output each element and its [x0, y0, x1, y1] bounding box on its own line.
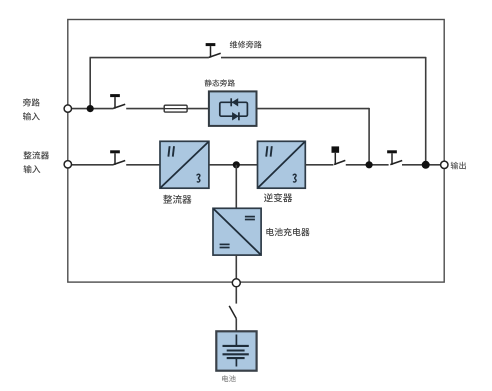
rectifier AC squiggle	[197, 174, 200, 182]
wire charger to bottom border	[235, 255, 237, 283]
battery charger box U4	[213, 208, 261, 255]
wire to static node	[346, 164, 389, 166]
junction node maintenance tie-in	[422, 161, 430, 169]
breaker Q2 bypass input switch	[110, 96, 125, 109]
rectifier box U1	[160, 141, 209, 188]
wire riser static bypass to output node	[368, 108, 370, 165]
wire bypass input from terminal to switch	[68, 108, 114, 110]
label 整流器输入 line2	[24, 165, 41, 173]
rectifier DC bars	[168, 146, 174, 156]
wire switch to battery	[235, 319, 237, 332]
static bypass box U2	[209, 91, 257, 126]
wire inverter to output switch	[305, 164, 333, 166]
wire riser from bypass-input junction to maintenance bypass line	[89, 58, 91, 109]
label 逆变器 (inverter)	[264, 193, 292, 202]
charger DC bars bottom-left	[220, 244, 230, 247]
wire maintenance bypass right segment	[221, 57, 426, 59]
UPS enclosure frame	[68, 20, 444, 283]
wire DC bus down to charger	[235, 165, 237, 209]
breaker Q5 output isolation switch	[387, 152, 402, 165]
label 整流器输入 line1	[24, 151, 50, 159]
breaker Q1 rectifier input switch	[110, 152, 125, 165]
wire to output terminal	[402, 164, 444, 166]
junction node DC bus	[233, 161, 240, 168]
wire switch to rectifier	[126, 164, 160, 166]
label 旁路输入 line1	[23, 98, 40, 106]
battery disconnect switch blade	[229, 306, 236, 319]
label 整流器 (rectifier)	[163, 195, 191, 204]
terminal rectifier input	[64, 161, 71, 168]
charger diagonal	[214, 209, 261, 255]
terminal output	[441, 161, 448, 168]
wire below frame to battery switch	[235, 283, 237, 304]
terminal bypass input	[64, 105, 71, 112]
battery symbol	[223, 335, 249, 367]
wire rectifier input from terminal to switch	[68, 164, 114, 166]
wire rectifier to inverter	[209, 164, 258, 166]
label 输出 (output)	[451, 162, 466, 170]
label 维修旁路	[230, 41, 262, 49]
breaker Q3 maintenance bypass switch	[206, 45, 221, 58]
rectifier diagonal	[161, 142, 209, 188]
wire riser maintenance bypass down to output node	[425, 57, 427, 165]
inverter DC bars	[266, 146, 272, 156]
inverter diagonal	[258, 142, 305, 188]
wire static bypass output	[257, 108, 370, 110]
inverter AC squiggle	[293, 174, 296, 182]
label 旁路输入 line2	[23, 112, 40, 120]
fuse F1	[164, 105, 187, 112]
SCR D1 top (points left)	[231, 98, 238, 106]
charger DC bars top-right	[245, 217, 255, 220]
wire switch to fuse	[126, 108, 165, 110]
terminal battery on frame	[232, 279, 240, 287]
breaker Q4 inverter output switch (square head)	[332, 146, 346, 164]
label 静态旁路	[205, 79, 235, 86]
junction node bypass to maintenance riser	[87, 105, 94, 112]
label 电池充电器 (battery charger)	[266, 228, 309, 236]
SCR D2 bottom (points right)	[232, 112, 239, 120]
wire fuse to static switch box	[187, 108, 209, 110]
wire maintenance bypass left segment	[90, 57, 209, 59]
static switch SCR loop	[220, 102, 248, 116]
label 电池 (battery)	[222, 375, 236, 382]
junction node static bypass tie-in	[366, 161, 373, 168]
inverter box U3	[258, 141, 306, 188]
battery box BT1	[216, 331, 256, 370]
